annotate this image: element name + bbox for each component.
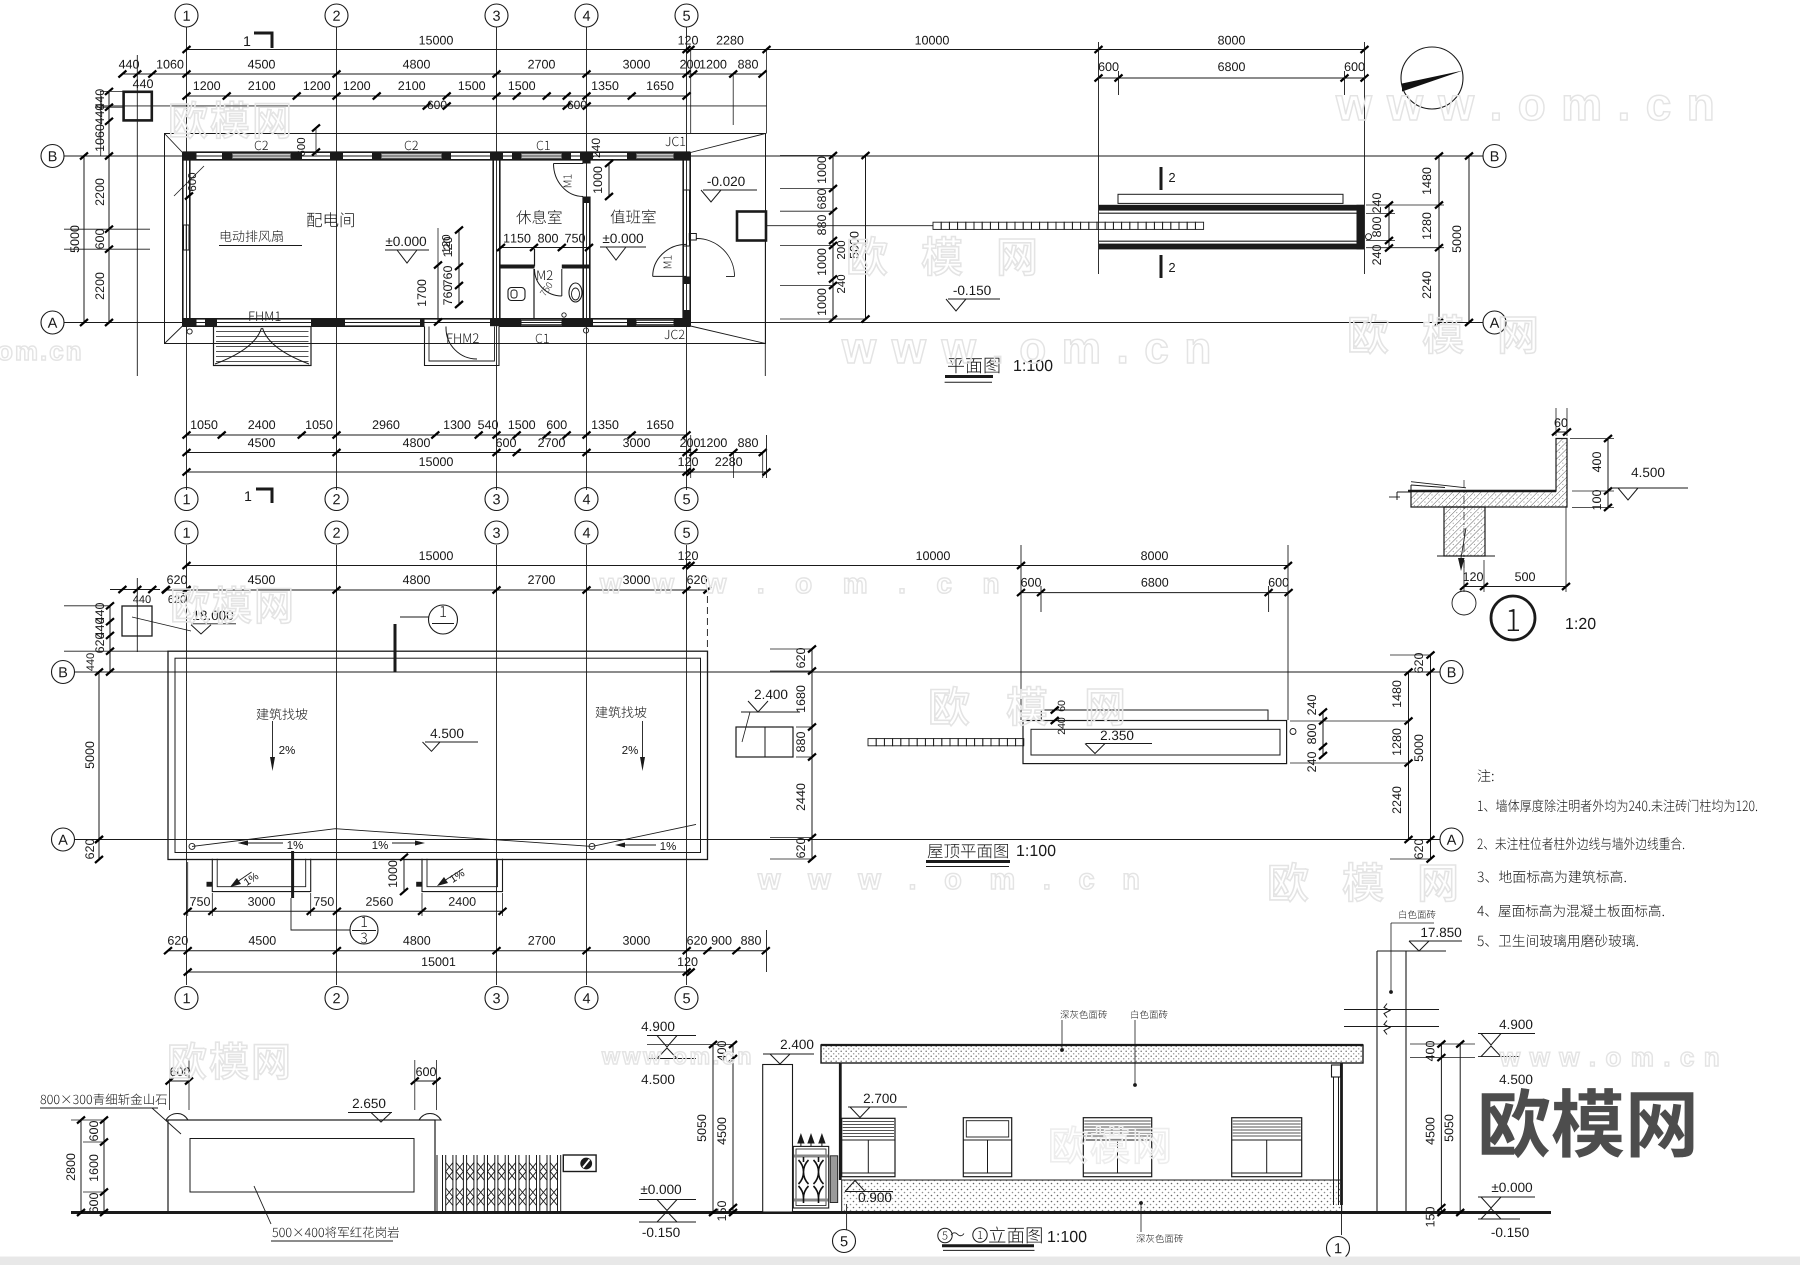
squat toilet bbox=[508, 288, 525, 301]
bottom gray strip bbox=[0, 1257, 1800, 1265]
watermark oumo mid bbox=[849, 237, 1035, 276]
level pm0.000 power room bbox=[386, 237, 426, 247]
note line 3 bbox=[1477, 870, 1626, 883]
site wall line west vertical bbox=[136, 55, 138, 376]
dim 120 and 1700 bathroom bbox=[442, 235, 450, 253]
gate plan extension lines right bbox=[1366, 204, 1444, 206]
level -0.150 left elevation bbox=[639, 1221, 696, 1223]
roof gate outer rect bbox=[1023, 721, 1287, 764]
section mark 2-2 bottom bbox=[1160, 255, 1163, 278]
label C2 first bbox=[255, 141, 268, 151]
roof dim 1000 canopy bbox=[403, 857, 405, 891]
gate wall level 2.650 bbox=[353, 1099, 386, 1109]
roof slope arrow left 2% bbox=[272, 721, 274, 768]
roof plan grid circles bottom bbox=[175, 987, 198, 1010]
roof gate left dim stack bbox=[811, 649, 813, 859]
bottom exterior wall bbox=[183, 318, 691, 320]
wall piers top (black) bbox=[183, 152, 197, 160]
site wall section right bbox=[1376, 951, 1378, 1213]
folding gate motor box bbox=[563, 1155, 596, 1172]
roof left dim stack bbox=[109, 606, 111, 672]
notes 注: bbox=[1478, 769, 1494, 782]
watermark oumo bottom-left bbox=[170, 1042, 288, 1079]
roof drainage 1% arrows bbox=[288, 841, 303, 849]
big watermark oumowang bottom right bbox=[1482, 1088, 1694, 1158]
watermark www elev left bbox=[602, 1052, 750, 1065]
grid line A horizontal bbox=[64, 322, 1483, 324]
roof corner column small square bbox=[122, 606, 152, 636]
roof grid line A bbox=[74, 839, 1440, 841]
north arrow bbox=[1401, 47, 1463, 109]
right exterior wall bbox=[682, 152, 684, 326]
watermark oumo row4 left bbox=[173, 586, 291, 623]
roof grid bubble B left bbox=[52, 661, 75, 684]
floor plan grid circles bottom bbox=[175, 488, 198, 511]
detail dim 120/500 bbox=[1464, 586, 1566, 588]
pillar level 2.400 bbox=[781, 1040, 814, 1050]
detail leader arrow bbox=[1461, 528, 1466, 558]
window 4 elevation bbox=[1232, 1118, 1302, 1177]
watermark www roof bottom bbox=[758, 873, 1138, 889]
facade label dark tile bottom bbox=[1136, 1234, 1183, 1243]
dim row 440/1060/grid spans bbox=[122, 73, 762, 75]
detail column break line bbox=[1437, 555, 1495, 557]
rotated 600 left wall bbox=[188, 173, 196, 191]
building roof slab elevation bbox=[821, 1045, 1363, 1063]
roof grid bubble B right bbox=[1440, 661, 1463, 684]
level pm0.000 duty room bbox=[603, 234, 643, 244]
stone label 800x300 bbox=[41, 1094, 167, 1106]
door M1 duty room (arc) bbox=[653, 275, 687, 277]
roof gate right dim 5000/620 bbox=[1430, 655, 1432, 859]
roof gate level 2.350 bbox=[1101, 731, 1134, 741]
canopy extension lines bbox=[211, 893, 213, 916]
label C2 second bbox=[405, 141, 418, 151]
roof canopy right 1% arrow bbox=[444, 869, 463, 881]
louver window left wall (fan) bbox=[183, 225, 185, 250]
door FHM2 arc bbox=[446, 328, 477, 359]
elevation dim 5050 bbox=[712, 1045, 714, 1213]
grid bubble B left bbox=[41, 145, 64, 168]
roof outline inner bbox=[175, 658, 701, 852]
detail drip left bbox=[1397, 491, 1411, 493]
windows C1 JC2 bottom wall bbox=[521, 319, 562, 321]
gate wall elevation bbox=[168, 1120, 435, 1212]
roof gate pier plan left bbox=[736, 727, 793, 757]
windows C2 C2 C1 JC1 top wall bbox=[232, 153, 291, 155]
gate structure plan outer verticals bbox=[1098, 190, 1100, 274]
dim row inside rest room 1150/800/750 bbox=[501, 247, 589, 249]
roof gate leaf rect bbox=[1041, 710, 1268, 721]
window 1 elevation bbox=[842, 1118, 895, 1176]
left dim stack floor plan bbox=[108, 91, 110, 322]
level pm0.000 right elevation bbox=[1492, 1183, 1532, 1193]
room label duty 值班室 bbox=[611, 209, 656, 223]
roof gate inner rect bbox=[1031, 729, 1280, 755]
building base hatched strip bbox=[842, 1180, 1342, 1212]
downpipe right bbox=[1333, 1077, 1335, 1205]
watermark oumo roof center bbox=[931, 687, 1123, 726]
roof slope arrow right 2% bbox=[642, 721, 644, 768]
top exterior wall bbox=[183, 151, 691, 153]
dim 1000 door M1 bbox=[608, 164, 610, 197]
title roof plan 屋顶平面图 1:100 bbox=[928, 844, 1008, 858]
ground line bbox=[71, 1211, 1551, 1214]
left dim stack of gate plan bbox=[832, 156, 834, 320]
roof gate level 2.400 bbox=[755, 690, 788, 700]
roof canopy left bbox=[212, 859, 310, 892]
roof bottom dim rows bbox=[188, 910, 503, 912]
roof level 18.000 cluster bbox=[193, 611, 233, 621]
roof slope label left 建筑找坡 bbox=[257, 708, 308, 720]
wall piers bottom (black) bbox=[183, 319, 197, 326]
grid circle 5 elevation bottom bbox=[833, 1230, 856, 1253]
roof drain circles bbox=[189, 843, 195, 849]
section mark 1 bottom of floor plan bbox=[245, 491, 251, 501]
label FHM2 bbox=[447, 333, 478, 343]
fence rails bbox=[794, 1155, 828, 1158]
stone label 500x400 bbox=[272, 1227, 399, 1239]
right dim stack floor plan 1480/1280/2240 bbox=[1438, 156, 1440, 323]
detail right dims 400/100 bbox=[1607, 439, 1609, 508]
floor plan grid circles top bbox=[175, 4, 198, 27]
door duty room exterior swing bbox=[689, 234, 696, 241]
building right wall bbox=[1340, 1063, 1343, 1205]
right elevation dim 5050 bbox=[1459, 1044, 1461, 1213]
label white tile wall section bbox=[1400, 910, 1436, 919]
gate pillar elevation bbox=[763, 1065, 793, 1213]
FHM2 porch bbox=[425, 327, 500, 366]
roof canopy left 1% arrow bbox=[237, 872, 252, 882]
detail bubble small circle bbox=[1452, 591, 1476, 615]
roof detail flag 1/3 bbox=[350, 916, 378, 944]
floor plan bottom dim rows bbox=[187, 434, 687, 436]
elevation dim 400/4500/150 bbox=[732, 1045, 734, 1213]
facade label white tile top bbox=[1132, 1010, 1168, 1019]
roof fence dashes bbox=[868, 739, 1024, 746]
level 17.850 bbox=[1421, 928, 1461, 938]
note line 1 bbox=[1478, 799, 1757, 812]
interior wall grid3 bbox=[492, 160, 494, 319]
apron outline bbox=[165, 134, 766, 344]
watermark www top-right bbox=[1336, 95, 1712, 120]
floor drain bathroom bbox=[562, 313, 566, 317]
grid bubble A left bbox=[41, 311, 64, 334]
door M2 bathroom (arc) bbox=[535, 269, 562, 296]
fence spears bbox=[798, 1135, 804, 1147]
level -0.020 bbox=[708, 177, 745, 187]
gate wall cap right bbox=[419, 1114, 441, 1121]
door M1 rest room (arc) bbox=[554, 163, 584, 165]
apron corner diagonals bbox=[165, 134, 183, 153]
gate wall 600 dim left bbox=[170, 1080, 190, 1082]
label JC1 bbox=[666, 137, 686, 147]
folding gate posts bbox=[443, 1155, 561, 1213]
note line 4 bbox=[1477, 904, 1664, 917]
section mark 2-2 top bbox=[1160, 167, 1163, 190]
watermark www row4 bbox=[600, 578, 998, 593]
grid circle 1 elevation bottom bbox=[1327, 1237, 1350, 1260]
level 4.500 right elevation bbox=[1478, 1056, 1520, 1058]
label C1 top bbox=[537, 141, 550, 151]
roof west wall line bbox=[136, 578, 138, 652]
interior wall grid4 with door opening bbox=[582, 160, 584, 164]
watermark omcn left edge bbox=[0, 346, 80, 360]
roof slope label right 建筑找坡 bbox=[596, 706, 647, 718]
watermark oumo top-left bbox=[171, 101, 289, 138]
gray strip right of fence bbox=[830, 1156, 838, 1203]
detail screed slope line bbox=[1411, 482, 1466, 488]
watermark www near big bbox=[1500, 1052, 1718, 1066]
room label rest 休息室 bbox=[516, 210, 561, 224]
roof grid bubble A left bbox=[52, 828, 75, 851]
grid bubble B right bbox=[1483, 145, 1506, 168]
gate wall cap left bbox=[166, 1114, 188, 1121]
roof gate circle right bbox=[1290, 729, 1296, 735]
roof level 4.500 bbox=[430, 729, 463, 739]
right dim stack floor plan 240/800/240 bbox=[1388, 205, 1390, 248]
building left wall bbox=[839, 1063, 842, 1180]
detail dim 60 top bbox=[1556, 431, 1567, 433]
roof plan grid circles top bbox=[175, 521, 198, 544]
gate structure bottom wall bar bbox=[1099, 240, 1357, 242]
roof valley lines bbox=[192, 824, 696, 846]
small circle right of gate bbox=[1366, 234, 1372, 240]
fence centerline bbox=[766, 225, 933, 227]
roof section flag 1 bbox=[429, 605, 458, 634]
watermark oumo elev center bbox=[1051, 1126, 1169, 1163]
level 4.900 right elevation bbox=[1499, 1020, 1532, 1030]
roof plan top dim rows bbox=[187, 565, 1289, 567]
bathroom north wall bbox=[500, 265, 535, 269]
facade label dark tile top bbox=[1060, 1010, 1107, 1019]
gate wall 600 dim right bbox=[415, 1080, 437, 1082]
roof gate right dims 240/800/240 bbox=[1322, 712, 1324, 756]
level -0.150 site bbox=[954, 286, 991, 296]
watermark www mid bbox=[842, 339, 1209, 363]
roof outline outer bbox=[168, 651, 708, 859]
detail slab top thick line bbox=[1408, 490, 1556, 493]
level -0.150 right elevation bbox=[1478, 1218, 1520, 1220]
roof grid lines vertical bbox=[186, 545, 188, 985]
roof gate 60/240 rotated dims bbox=[1058, 701, 1065, 712]
dim row detail 1200/2100 spans bbox=[187, 95, 687, 97]
roof canopy right bbox=[422, 859, 503, 892]
floor plan grid lines vertical bbox=[186, 27, 188, 490]
grid bubble A right bbox=[1483, 311, 1506, 334]
title plan 平面图 1:100 bbox=[948, 358, 999, 374]
roof grid line B bbox=[74, 671, 1440, 673]
site wall column right of building bbox=[737, 212, 766, 241]
fence dashes plan bbox=[933, 222, 1204, 229]
roof corner dims bbox=[110, 589, 160, 591]
label M2 bbox=[537, 270, 552, 280]
wash basin bbox=[569, 283, 582, 302]
note line 2 bbox=[1478, 837, 1685, 850]
note line 5 bbox=[1477, 934, 1638, 947]
detail centerline bbox=[1463, 480, 1465, 568]
steps FHM1 bbox=[214, 327, 312, 366]
roof gate right dim stack 1480/1280/2240 bbox=[1408, 672, 1410, 840]
roof section cut bar bbox=[394, 624, 397, 672]
window 2 elevation bbox=[963, 1118, 1011, 1177]
dim row 15000/120/2280/10000/8000 top bbox=[187, 49, 1365, 51]
fence ornament scrolls bbox=[799, 1157, 824, 1203]
gate wall recessed panel bbox=[190, 1139, 414, 1193]
level 4.500 left elevation bbox=[647, 1058, 696, 1060]
gate wall left dim stack 600/1600/600/2800 bbox=[103, 1120, 105, 1213]
top right dim row 600/6800/600 bbox=[1099, 77, 1365, 79]
level 0.900 bbox=[859, 1193, 892, 1203]
window right wall JC bbox=[683, 190, 685, 246]
detail level 4.500 bbox=[1631, 468, 1664, 478]
level pm0.000 left elevation bbox=[641, 1185, 681, 1195]
detail big circle 1 1:20 bbox=[1491, 596, 1535, 640]
label C1 bottom bbox=[536, 334, 549, 344]
right elevation dim 400/4500/150 bbox=[1440, 1044, 1442, 1213]
door opening right wall bbox=[683, 277, 690, 285]
right dim stack floor plan 5000 bbox=[1468, 156, 1470, 323]
title elevation 5-1 立面图 1:100 bbox=[938, 1228, 952, 1242]
label JC2 bbox=[665, 330, 685, 340]
roof grid bubble A right bbox=[1440, 828, 1463, 851]
watermark oumo roof right bbox=[1270, 863, 1456, 902]
folding gate lattice bbox=[446, 1163, 558, 1206]
rotated 600 with tick grid2 top bbox=[297, 138, 305, 156]
grid line B horizontal bbox=[64, 155, 1483, 157]
level 4.900 left elevation bbox=[641, 1022, 674, 1032]
gate structure right cap bbox=[1357, 205, 1365, 250]
room label exhaust fan 电动排风扇 bbox=[221, 230, 283, 242]
label FHM1 bbox=[249, 312, 280, 322]
watermark oumo right-mid bbox=[1350, 315, 1536, 354]
window 3 elevation bbox=[1083, 1118, 1151, 1177]
room label power distribution 配电间 bbox=[307, 212, 354, 227]
gate structure top wall bar bbox=[1099, 205, 1364, 211]
site wall break marks bbox=[1344, 1009, 1439, 1011]
left exterior wall bbox=[182, 152, 184, 326]
folding gate left edge bbox=[436, 1155, 438, 1213]
label 240 rotated near grid4 bbox=[592, 138, 601, 157]
gate leaf rect plan bbox=[1118, 194, 1343, 203]
corner circles bottom wall bbox=[187, 329, 192, 334]
site wall column top-left bbox=[124, 92, 152, 121]
roof detail flag leader bbox=[291, 851, 294, 898]
ornamental fence panel bbox=[793, 1146, 828, 1208]
bathroom partition bbox=[533, 269, 535, 319]
level 2.700 bbox=[864, 1094, 897, 1104]
section mark 1 top-left bbox=[244, 36, 250, 46]
site wall line north bbox=[101, 105, 767, 107]
